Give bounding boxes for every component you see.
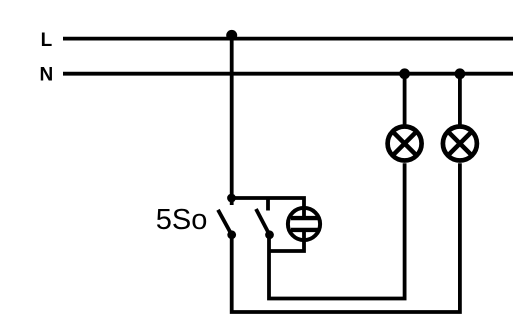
svg-text:5So: 5So	[156, 204, 208, 236]
svg-text:N: N	[40, 64, 54, 85]
svg-text:L: L	[41, 30, 53, 51]
